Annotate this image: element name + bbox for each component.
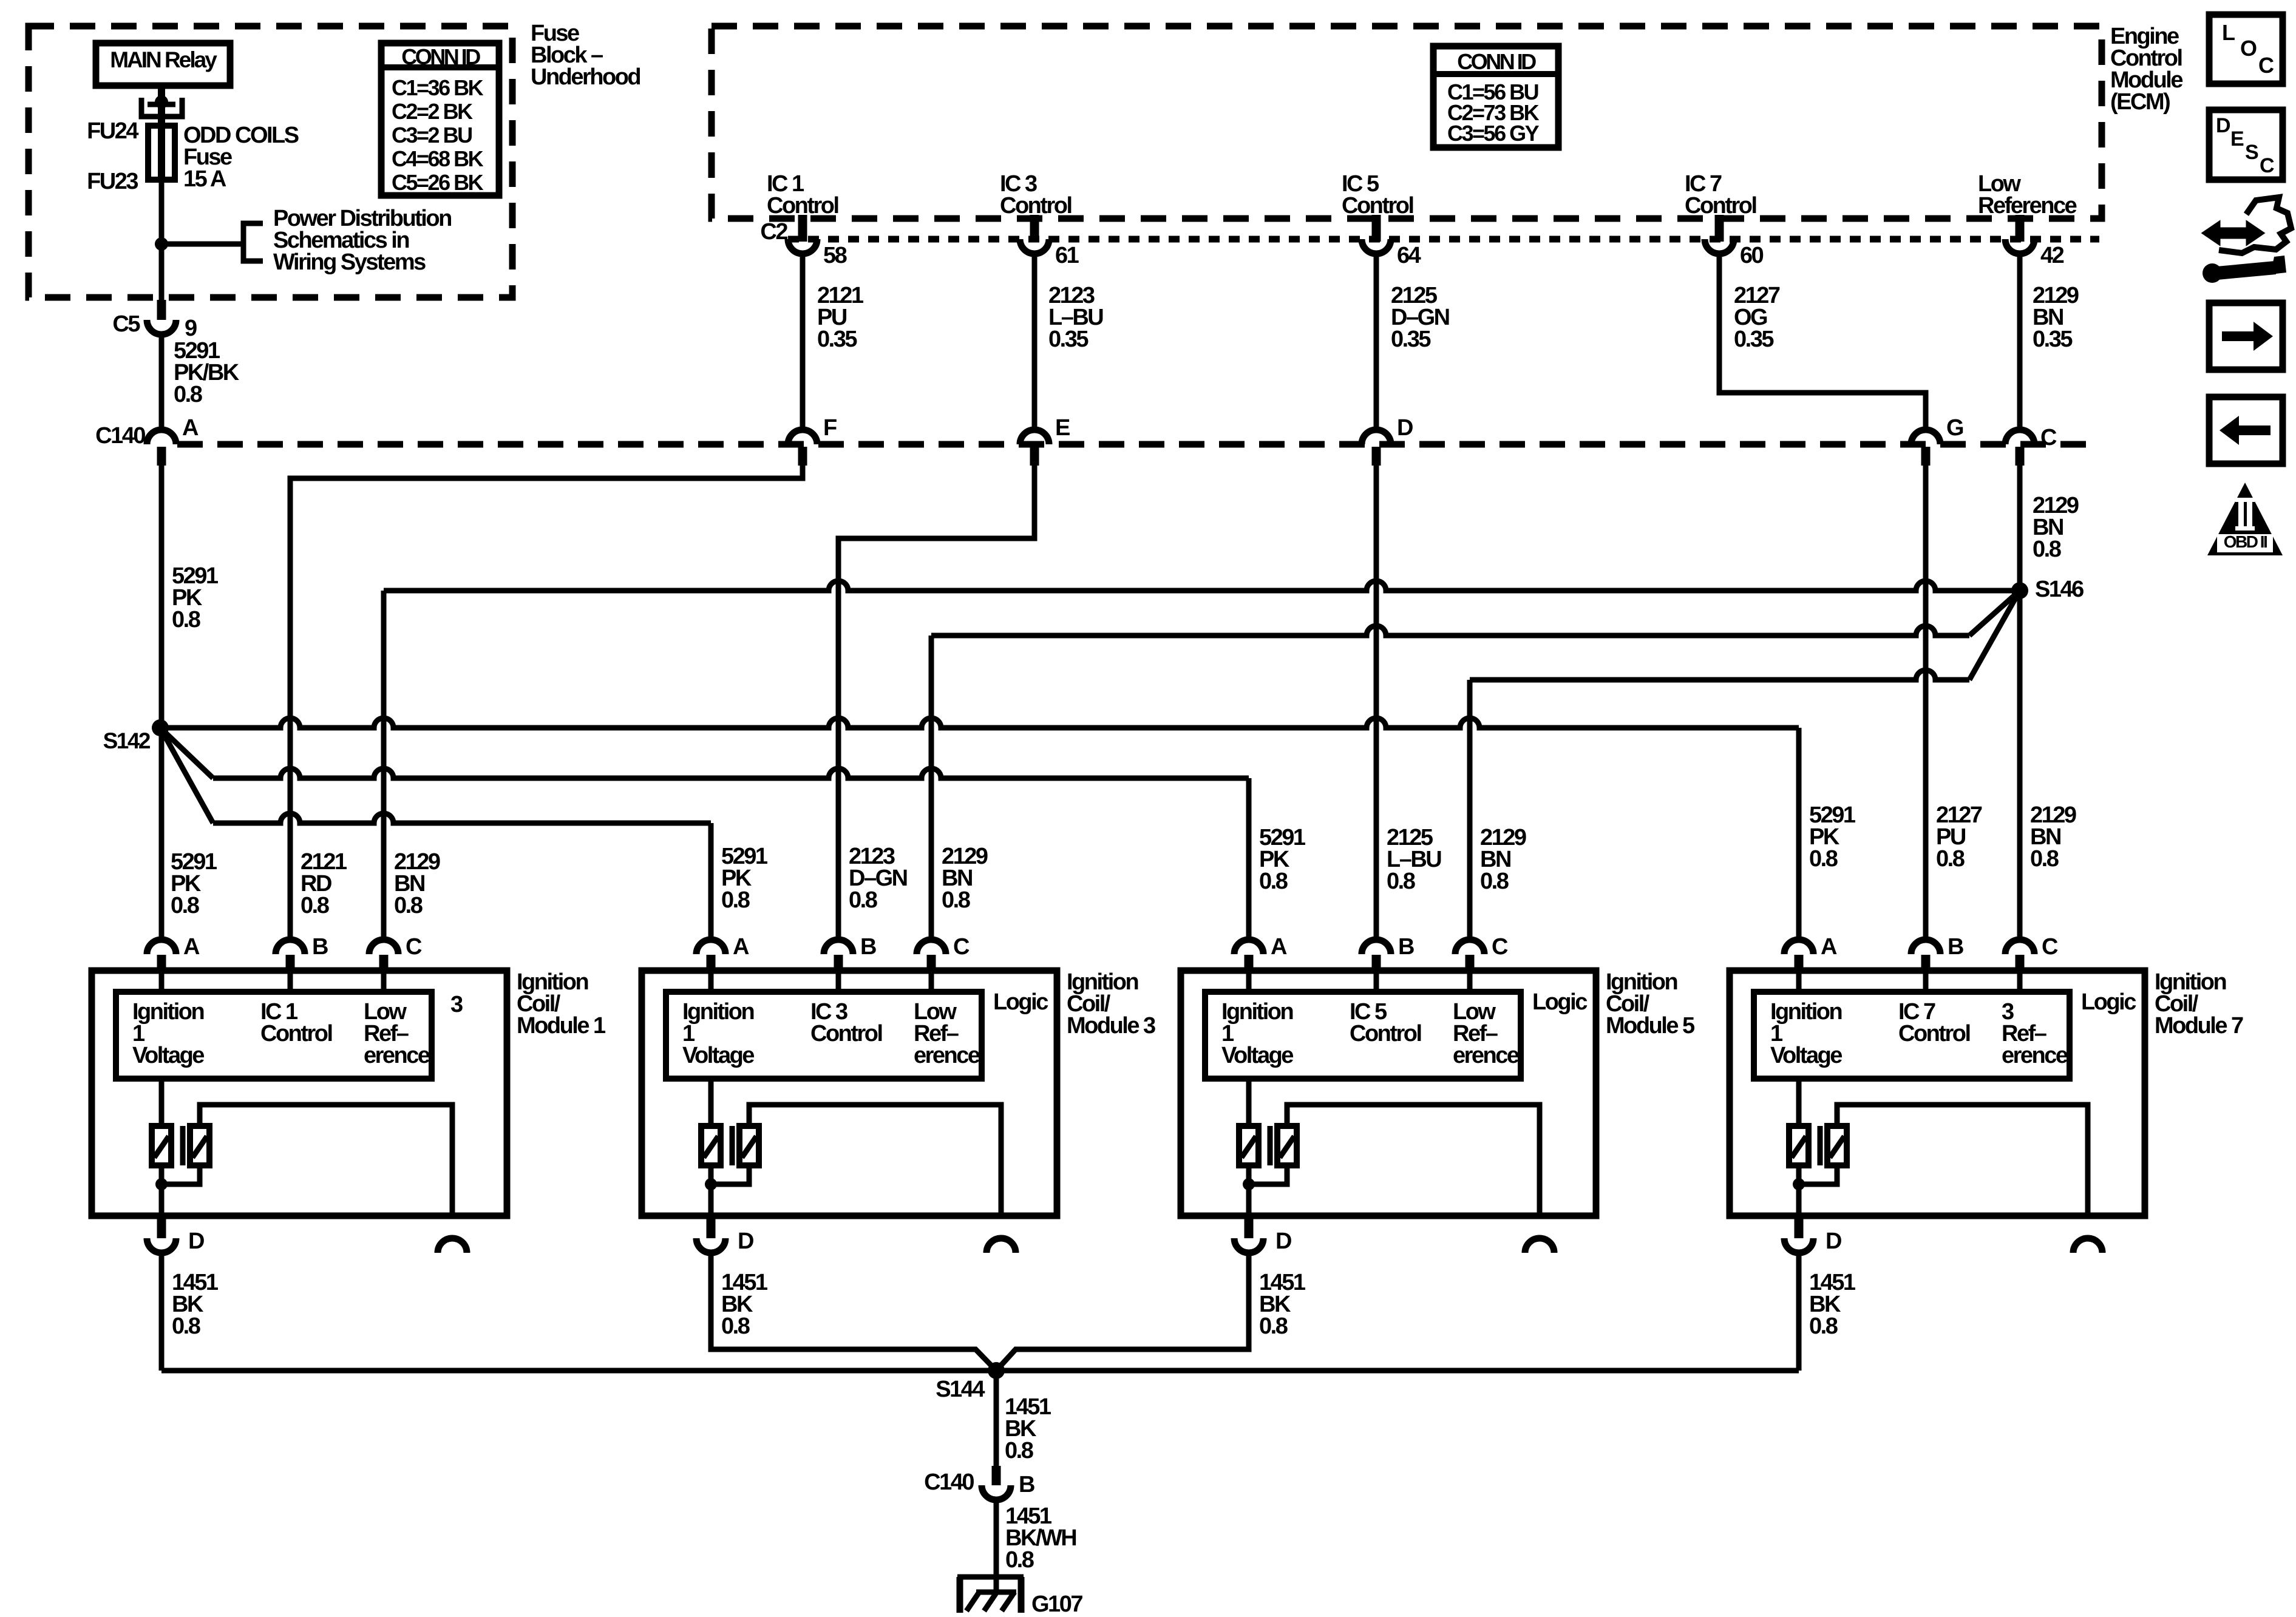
svg-text:0.35: 0.35: [1048, 327, 1089, 352]
svg-text:Control: Control: [1000, 193, 1072, 219]
svg-text:L: L: [2222, 20, 2235, 45]
module 7 inner logic box: [1754, 992, 2070, 1079]
svg-text:61: 61: [1055, 243, 1079, 268]
module 3 coil secondary winding: [739, 1126, 759, 1165]
svg-text:B: B: [1948, 934, 1963, 960]
svg-text:C2: C2: [760, 219, 787, 245]
icon LOC box: [2209, 15, 2283, 84]
svg-text:C: C: [953, 934, 970, 960]
svg-text:Control: Control: [767, 193, 838, 219]
module 3 coil core: [730, 1126, 735, 1165]
splice S146: [2011, 582, 2028, 599]
svg-text:0.8: 0.8: [1005, 1547, 1034, 1573]
svg-text:OBD II: OBD II: [2224, 532, 2267, 551]
svg-text:0.35: 0.35: [2033, 327, 2073, 352]
svg-text:0.8: 0.8: [1005, 1438, 1033, 1463]
svg-text:Voltage: Voltage: [132, 1043, 204, 1068]
wire module7 D down: [1796, 1253, 1802, 1371]
module 1 pin A: [147, 940, 176, 954]
icon back arrow box: [2209, 397, 2283, 464]
module 5 coil secondary winding: [1277, 1126, 1297, 1165]
svg-text:Module 1: Module 1: [517, 1013, 606, 1039]
svg-text:C3=2 BU: C3=2 BU: [392, 123, 472, 147]
svg-text:C: C: [2260, 154, 2274, 177]
wire low ref module3 C to S146: [929, 636, 934, 940]
svg-text:D: D: [2216, 114, 2230, 137]
svg-text:S: S: [2245, 141, 2258, 164]
svg-text:FU23: FU23: [87, 169, 138, 194]
wire S142 branch 3 to module3 A: [160, 728, 213, 823]
ground G107: [957, 1575, 1024, 1580]
svg-text:0.8: 0.8: [301, 893, 329, 918]
C140 pin C: [2005, 430, 2034, 444]
svg-text:0.8: 0.8: [942, 887, 970, 913]
svg-text:0.8: 0.8: [1936, 846, 1965, 872]
svg-text:C: C: [2258, 53, 2274, 78]
svg-text:C2=2 BK: C2=2 BK: [392, 99, 473, 124]
bracket for Power Distribution note: [243, 223, 263, 261]
svg-text:0.8: 0.8: [721, 1314, 750, 1339]
svg-text:0.8: 0.8: [2030, 846, 2059, 872]
C140 pin E: [1020, 430, 1049, 444]
svg-text:A: A: [1271, 934, 1287, 960]
wire module3 D to S144: [711, 1253, 996, 1371]
wire 5291 PK 0.8 (C140 A to S142): [159, 466, 165, 728]
svg-text:60: 60: [1740, 243, 1764, 268]
module 5 coil common node: [1243, 1178, 1255, 1190]
module 7 coil core: [1818, 1126, 1823, 1165]
module 3 pin A: [696, 940, 725, 954]
wire low ref module1 C to S146: [381, 591, 387, 940]
svg-text:erence: erence: [2002, 1043, 2068, 1068]
module 1 coil common node: [155, 1178, 168, 1190]
module 7 coil primary winding: [1796, 1079, 1802, 1126]
svg-text:Voltage: Voltage: [1221, 1043, 1293, 1068]
svg-text:Control: Control: [1898, 1021, 1970, 1046]
svg-text:3: 3: [450, 992, 463, 1017]
C140 pin G: [1911, 430, 1940, 444]
svg-text:C3=56 GY: C3=56 GY: [1447, 121, 1540, 146]
svg-text:Module 5: Module 5: [1606, 1013, 1695, 1039]
module 1 pin D: [157, 1216, 166, 1238]
module 5 pin C: [1455, 940, 1484, 954]
module 5 coil core: [1268, 1126, 1273, 1165]
module 1 coil primary winding: [159, 1079, 165, 1126]
fuse FU23/FU24 ODD COILS Fuse 15 A: [148, 126, 175, 180]
module 3 pin C: [917, 940, 946, 954]
module 1 pin leads into inner box: [159, 972, 165, 992]
module 3 coil primary winding: [708, 1079, 714, 1126]
module 7 pin D: [1795, 1216, 1804, 1238]
svg-text:Module 7: Module 7: [2155, 1013, 2243, 1039]
svg-text:Control: Control: [810, 1021, 882, 1046]
svg-text:0.8: 0.8: [1387, 869, 1415, 894]
svg-text:S142: S142: [103, 728, 151, 753]
svg-text:A: A: [182, 415, 199, 441]
svg-text:D: D: [1397, 415, 1413, 441]
svg-text:D: D: [738, 1229, 753, 1254]
relay contact symbol under MAIN Relay: [158, 86, 165, 180]
wire 2121 RD 0.8 (C140 F to module1 B): [290, 466, 803, 940]
svg-text:G107: G107: [1031, 1592, 1082, 1617]
module 1 inner logic box: [116, 992, 432, 1079]
svg-text:E: E: [2230, 127, 2244, 151]
wire 2129 BN 0.8 (C140 C to S146): [2017, 466, 2023, 940]
svg-text:15 A: 15 A: [183, 166, 226, 192]
wire 5291 PK/BK 0.8: [159, 334, 165, 430]
svg-text:0.35: 0.35: [1734, 327, 1774, 352]
module 5 pin A: [1234, 940, 1263, 954]
svg-text:CONN ID: CONN ID: [401, 44, 480, 69]
svg-text:0.35: 0.35: [817, 327, 857, 352]
ignition coil/module 1 outer box: [92, 971, 507, 1216]
wire 2121 PU 0.35: [800, 254, 806, 430]
connector C5 pin 9: [157, 300, 166, 320]
module 5 inner logic box: [1205, 992, 1521, 1079]
svg-text:D: D: [188, 1229, 204, 1254]
table: CONN ID (ECM): [1433, 46, 1558, 147]
module 7 pin A: [1784, 940, 1813, 954]
module 7 coil common node: [1793, 1178, 1805, 1190]
ignition coil/module 3 outer box: [642, 971, 1057, 1216]
svg-text:0.8: 0.8: [2033, 537, 2061, 562]
svg-text:0.8: 0.8: [394, 893, 423, 918]
wire S144 main line: [161, 1368, 1799, 1374]
svg-text:A: A: [1821, 934, 1837, 960]
svg-text:D: D: [1275, 1229, 1291, 1254]
module 5 unlabeled high-tension terminal: [1525, 1238, 1554, 1253]
svg-text:C5: C5: [112, 311, 140, 337]
svg-text:E: E: [1055, 415, 1070, 441]
svg-text:MAIN Relay: MAIN Relay: [110, 47, 217, 72]
icon OBD II triangle: [2207, 483, 2283, 555]
svg-text:58: 58: [823, 243, 847, 268]
wire 2125 L-BU 0.8 (C140 D to module5 B): [1374, 466, 1379, 940]
module 3 pin B: [824, 940, 853, 954]
module 3 pin leads into inner box: [708, 972, 714, 992]
wire S142 branch 1 to module7 A: [160, 718, 1799, 728]
wire 1451 BK/WH 0.8 (C140 B to G107): [994, 1500, 999, 1592]
module 7 pin leads into inner box: [1796, 972, 1802, 992]
svg-text:B: B: [1019, 1472, 1034, 1497]
C140 pin D: [1362, 430, 1391, 444]
svg-text:C5=26 BK: C5=26 BK: [392, 170, 484, 195]
svg-text:0.8: 0.8: [172, 607, 200, 632]
wire S142 branch 2 to module5 A: [160, 728, 213, 778]
svg-text:0.8: 0.8: [1259, 1314, 1288, 1339]
svg-text:0.8: 0.8: [849, 887, 877, 913]
relay K: MAIN Relay box: [96, 43, 230, 86]
svg-text:64: 64: [1397, 243, 1421, 268]
svg-text:O: O: [2240, 36, 2257, 61]
svg-text:A: A: [183, 934, 200, 960]
wire 2123 L-BU 0.35: [1032, 254, 1038, 430]
svg-text:Module 3: Module 3: [1067, 1013, 1155, 1039]
svg-text:Control: Control: [260, 1021, 332, 1046]
svg-text:FU24: FU24: [87, 118, 138, 144]
svg-text:C: C: [2040, 425, 2057, 450]
svg-text:B: B: [1398, 934, 1414, 960]
module 7 pin B: [1911, 940, 1940, 954]
wire 2129 BN 0.35: [2017, 254, 2023, 430]
svg-text:C140: C140: [95, 423, 145, 449]
wire module1 A from S142: [159, 728, 165, 940]
svg-text:C: C: [406, 934, 422, 960]
connector line C140 (dashed): [177, 441, 2099, 448]
svg-text:Voltage: Voltage: [1770, 1043, 1842, 1068]
svg-text:0.35: 0.35: [1391, 327, 1431, 352]
wire 2127 PU 0.8 (C140 G to module7 B): [1923, 466, 1929, 940]
ignition coil/module 5 outer box: [1181, 971, 1596, 1216]
svg-text:Voltage: Voltage: [682, 1043, 754, 1068]
svg-text:C4=68 BK: C4=68 BK: [392, 146, 484, 171]
module 3 pin D: [707, 1216, 716, 1238]
svg-text:Control: Control: [1342, 193, 1413, 219]
ignition coil/module 7 outer box: [1730, 971, 2145, 1216]
svg-text:D: D: [1826, 1229, 1841, 1254]
wire 2123 D-GN 0.8 (C140 E to module3 B): [838, 466, 1034, 940]
table: CONN ID (fuse block): [381, 43, 499, 195]
svg-text:(ECM): (ECM): [2110, 89, 2170, 115]
svg-text:0.8: 0.8: [1259, 869, 1288, 894]
module 3 inner logic box: [666, 992, 982, 1079]
svg-text:9: 9: [185, 316, 197, 341]
fuse block dashed box: Fuse Block - Underhood: [29, 26, 512, 297]
svg-text:C: C: [2042, 934, 2058, 960]
svg-text:Logic: Logic: [993, 989, 1048, 1015]
C140 pin F: [788, 430, 817, 444]
module 1 unlabeled high-tension terminal: [438, 1238, 467, 1253]
svg-text:C: C: [1492, 934, 1508, 960]
svg-text:S144: S144: [936, 1377, 985, 1402]
svg-text:0.8: 0.8: [171, 893, 199, 918]
svg-text:erence: erence: [1453, 1043, 1519, 1068]
svg-text:0.8: 0.8: [1480, 869, 1509, 894]
svg-text:A: A: [733, 934, 749, 960]
svg-text:C1=36 BK: C1=36 BK: [392, 75, 484, 100]
module 7 pin C: [2005, 940, 2034, 954]
svg-text:C140: C140: [924, 1470, 974, 1495]
svg-text:B: B: [860, 934, 876, 960]
wire low ref module5 C to S146: [1467, 680, 1473, 940]
module 3 unlabeled high-tension terminal: [987, 1238, 1016, 1253]
wire module5 D to S144: [996, 1253, 1249, 1371]
wire 2125 D-GN 0.35: [1374, 254, 1379, 430]
wire from fuse to C5: [159, 180, 165, 300]
module 7 unlabeled high-tension terminal: [2073, 1238, 2102, 1253]
wire 1451 BK 0.8 (S144 to C140 B): [994, 1371, 999, 1466]
icon arrows and wrench: [2219, 197, 2291, 253]
ECM dashed box: Engine Control Module: [712, 26, 2102, 219]
svg-text:erence: erence: [364, 1043, 430, 1068]
splice S142: [152, 719, 169, 736]
wire module1 D to S144 line: [159, 1253, 165, 1371]
svg-text:0.8: 0.8: [721, 887, 750, 913]
splice S144: [988, 1362, 1005, 1379]
svg-text:erence: erence: [914, 1043, 980, 1068]
module 5 pin D: [1245, 1216, 1254, 1238]
svg-text:CONN ID: CONN ID: [1457, 49, 1536, 74]
C140 pin A: [147, 430, 176, 444]
svg-text:0.8: 0.8: [172, 1314, 200, 1339]
svg-text:Logic: Logic: [1532, 989, 1588, 1015]
module 5 pin B: [1362, 940, 1391, 954]
module 7 coil secondary winding: [1827, 1126, 1847, 1165]
icon DESC box: [2209, 110, 2283, 180]
svg-text:42: 42: [2040, 243, 2064, 268]
svg-text:F: F: [823, 415, 837, 441]
svg-text:Control: Control: [1350, 1021, 1421, 1046]
svg-text:S146: S146: [2035, 577, 2084, 602]
node: junction to power distribution note: [155, 237, 168, 251]
svg-text:Reference: Reference: [1978, 193, 2077, 219]
icon forward arrow box: [2209, 303, 2283, 370]
module 1 coil core: [180, 1126, 186, 1165]
module 5 coil primary winding: [1246, 1079, 1252, 1126]
module 1 pin C: [369, 940, 398, 954]
svg-text:Underhood: Underhood: [531, 64, 640, 90]
svg-text:B: B: [312, 934, 328, 960]
connector line C2 (dotted): [788, 236, 2099, 243]
svg-text:Control: Control: [1685, 193, 1756, 219]
wire 2127 OG 0.35: [1719, 254, 1926, 430]
svg-text:0.8: 0.8: [1809, 846, 1838, 872]
svg-text:0.8: 0.8: [174, 382, 202, 407]
module 1 coil secondary winding: [190, 1126, 209, 1165]
connector C140 pin B: [992, 1466, 1001, 1485]
svg-text:0.8: 0.8: [1809, 1314, 1838, 1339]
svg-text:Logic: Logic: [2081, 989, 2136, 1015]
svg-text:G: G: [1946, 415, 1963, 441]
module 3 coil common node: [705, 1178, 717, 1190]
module 1 pin B: [276, 940, 305, 954]
svg-text:Wiring Systems: Wiring Systems: [273, 249, 426, 275]
module 5 pin leads into inner box: [1246, 972, 1252, 992]
